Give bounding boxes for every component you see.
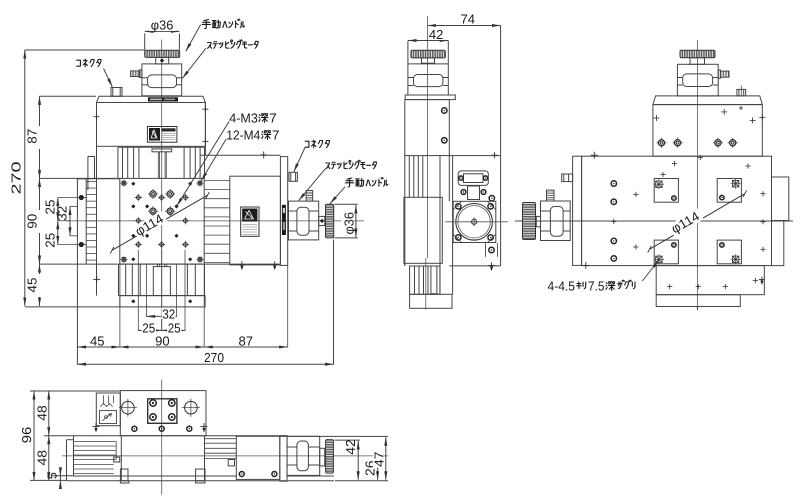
svg-text:42: 42 [343, 439, 358, 455]
svg-text:96: 96 [19, 427, 34, 444]
svg-text:4-M3: 4-M3 [229, 110, 257, 125]
svg-text:32: 32 [55, 206, 70, 221]
svg-text:5: 5 [44, 472, 59, 479]
svg-text:32: 32 [162, 307, 175, 322]
svg-text:47: 47 [371, 452, 386, 468]
svg-text:45: 45 [90, 333, 105, 348]
svg-text:12-M4: 12-M4 [226, 127, 260, 142]
svg-text:87: 87 [239, 333, 254, 348]
svg-text:7: 7 [272, 127, 280, 142]
svg-text:45: 45 [24, 278, 39, 293]
svg-text:25: 25 [142, 320, 155, 335]
svg-text:74: 74 [461, 12, 476, 27]
svg-text:4-4.5: 4-4.5 [548, 278, 576, 293]
svg-text:270: 270 [204, 350, 224, 365]
svg-text:25: 25 [43, 233, 58, 248]
svg-text:90: 90 [155, 333, 170, 348]
svg-text:7.5: 7.5 [588, 278, 605, 293]
svg-text:270: 270 [9, 162, 24, 195]
svg-text:42: 42 [429, 27, 444, 42]
svg-text:7: 7 [269, 110, 277, 125]
svg-text:90: 90 [24, 214, 39, 229]
svg-text:φ36: φ36 [342, 212, 357, 235]
svg-text:87: 87 [24, 129, 39, 144]
svg-text:48: 48 [35, 450, 50, 466]
svg-text:48: 48 [35, 405, 50, 421]
svg-text:φ36: φ36 [151, 17, 174, 32]
